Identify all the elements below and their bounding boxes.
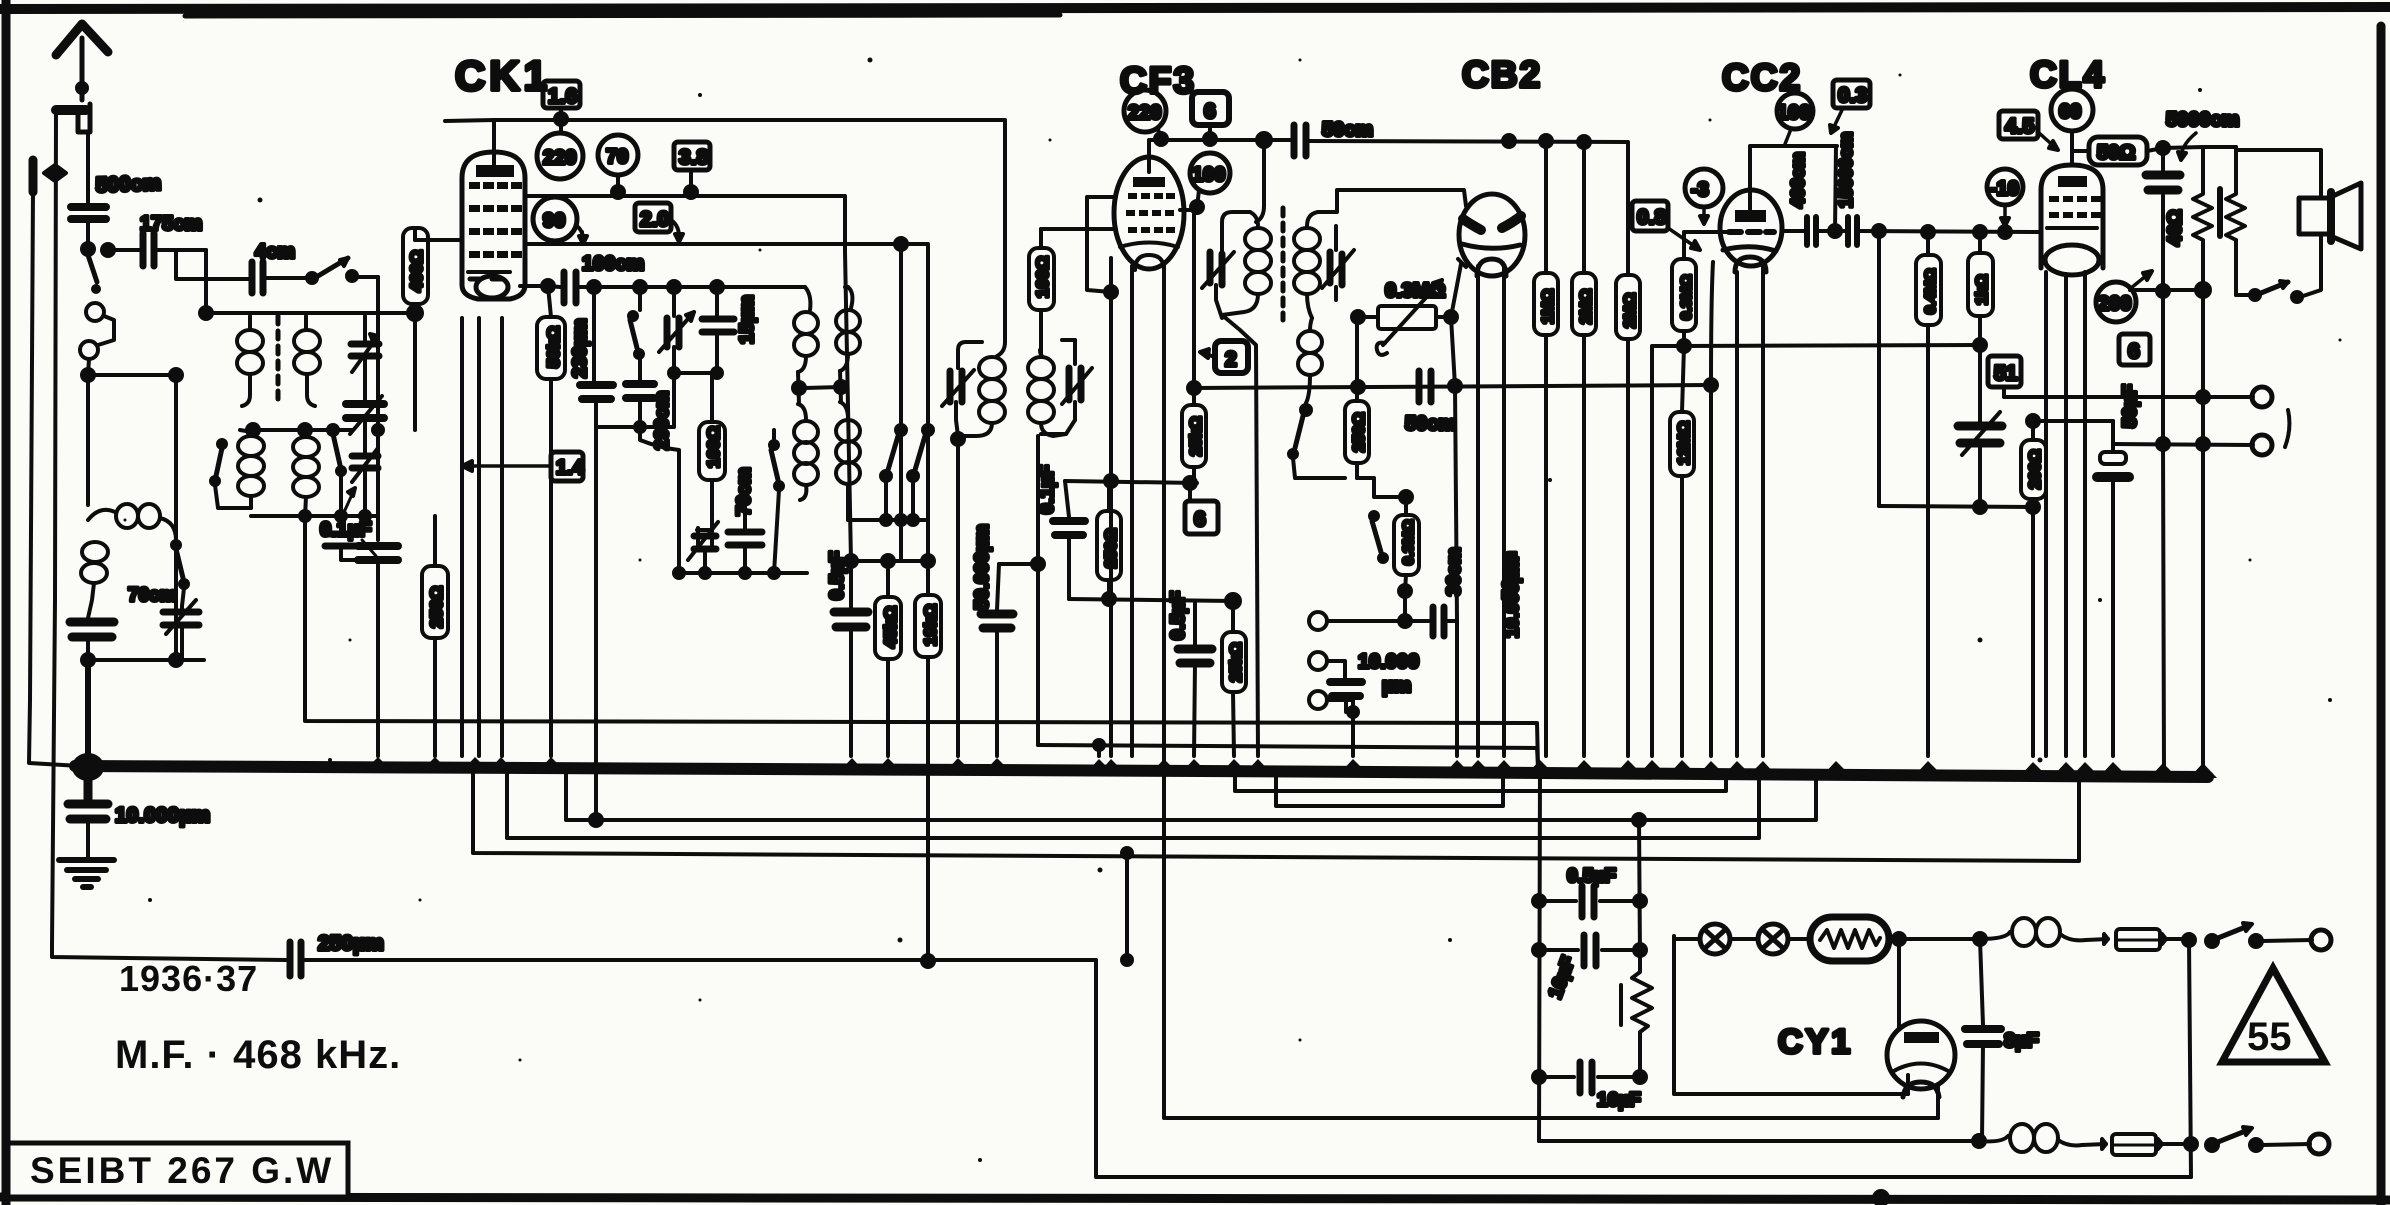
- node osc coil mid: [793, 372, 805, 404]
- svg-text:250Ω: 250Ω: [1103, 528, 1120, 568]
- trimmer capacitor IFT1 right: [1041, 340, 1092, 420]
- svg-text:12MΩ: 12MΩ: [1676, 421, 1693, 465]
- terminal jack 1: [1309, 612, 1411, 630]
- svg-text:6: 6: [1194, 508, 1206, 531]
- wire x1836 down: [1835, 146, 1836, 231]
- wire x1038 down elbow: [1036, 564, 1040, 745]
- svg-text:CK1: CK1: [455, 52, 551, 99]
- lamp 1: [1674, 924, 1730, 954]
- wire tank bottom row: [251, 511, 378, 521]
- speaker: [2299, 183, 2361, 249]
- core dashed IFT2: [1281, 208, 1286, 320]
- svg-text:250µm: 250µm: [318, 932, 384, 955]
- wire CF3 grid: [1041, 227, 1116, 231]
- wire x378 down: [376, 277, 380, 540]
- wire 175cm corner down: [204, 250, 208, 313]
- antenna lead elbow: [56, 104, 90, 132]
- wire left rail A: [29, 160, 80, 766]
- svg-text:1kΩ: 1kΩ: [1974, 274, 1991, 305]
- switch speaker: [2236, 240, 2302, 302]
- svg-text:175cm: 175cm: [140, 213, 202, 235]
- wire x1879 down: [1877, 231, 1881, 506]
- node junction x88 y375: [82, 369, 94, 381]
- wire y397 to terminal: [2034, 391, 2253, 403]
- wire secondary junction row: [247, 424, 352, 436]
- resistor 0.3M ohm AVC: [1394, 497, 1419, 591]
- wire IFT1 right rail: [1038, 420, 1075, 564]
- speaker loop bottom: [2303, 234, 2321, 296]
- wire switch bank verticals: [848, 238, 928, 525]
- node junction 176: [170, 369, 182, 381]
- trimmer capacitor sec bottom: [352, 440, 378, 516]
- wire padder cap link: [325, 516, 358, 560]
- wire return y791: [1235, 772, 1726, 791]
- box 0.8: [1632, 201, 1700, 250]
- node CY1 anode: [1889, 933, 1986, 1028]
- svg-text:CB2: CB2: [1462, 54, 1542, 95]
- resistor 45k ohm: [875, 561, 901, 756]
- capacitor 50cm AVC: [1419, 371, 1431, 402]
- node IFT1 left bottom: [952, 433, 964, 445]
- resistor 250 ohm CF3: [1097, 481, 1121, 599]
- wire AVC return y723: [305, 516, 1538, 766]
- terminal ring mains lower: [2309, 1134, 2329, 1154]
- wire CK1 plate top y120: [445, 120, 1005, 342]
- wire 46 ohm top: [2163, 147, 2203, 190]
- tube CB2: [1458, 194, 1525, 276]
- svg-text:400cm: 400cm: [1788, 152, 1808, 208]
- circle 70: [598, 135, 638, 198]
- svg-text:200Ω: 200Ω: [2027, 449, 2044, 489]
- svg-text:2: 2: [1225, 348, 1237, 371]
- svg-text:51: 51: [1994, 362, 2018, 385]
- svg-text:0.1µF: 0.1µF: [1037, 465, 1058, 514]
- wire x1357 pot up: [1355, 317, 1359, 385]
- fuse lower: [2082, 1134, 2184, 1155]
- circle 220: [537, 133, 583, 179]
- switch mains lower: [2206, 1127, 2310, 1151]
- circle 100 CC2: [1777, 93, 1813, 144]
- svg-text:1936·37: 1936·37: [119, 958, 258, 999]
- circle -10: [1987, 169, 2023, 226]
- svg-text:0.1µF: 0.1µF: [320, 519, 372, 541]
- capacitor 0.5uF CF3: [1178, 601, 1212, 756]
- svg-text:2MΩ: 2MΩ: [1578, 289, 1595, 324]
- wire primary top to plate line: [2203, 145, 2236, 149]
- wire y561 screen node: [845, 520, 934, 567]
- wire y745 long: [1038, 745, 1538, 766]
- svg-text:45kΩ: 45kΩ: [881, 606, 900, 648]
- resistor 19k ohm: [915, 595, 941, 967]
- svg-text:60: 60: [2059, 101, 2081, 123]
- tube CY1: [1887, 1021, 1955, 1097]
- svg-text:8µF: 8µF: [2004, 1030, 2039, 1052]
- svg-text:50.000µm: 50.000µm: [972, 524, 993, 610]
- resistor 250 ohm CK1 cathode: [422, 516, 448, 756]
- tube CL4: [2041, 165, 2103, 275]
- switch bank right pair: [881, 425, 933, 481]
- box 3.8: [674, 142, 710, 198]
- terminal ring 1: [2252, 387, 2272, 407]
- svg-text:220: 220: [543, 147, 576, 169]
- switch antenna selector: [88, 255, 99, 292]
- node pot right: [1445, 311, 1457, 323]
- node 5000cm top: [2157, 142, 2169, 154]
- wire x88 to bus: [85, 660, 91, 756]
- core dashed antenna transformer: [276, 316, 281, 404]
- capacitor 230cm chain: [580, 287, 613, 427]
- wire return y853: [473, 771, 2079, 861]
- svg-text:1.6: 1.6: [548, 85, 577, 108]
- wire x679 down: [640, 427, 679, 573]
- wire return y820: [566, 771, 1816, 826]
- node y421: [2027, 415, 2113, 427]
- node bottom frame junction: [1874, 1191, 1888, 1205]
- switch osc chain2: [629, 287, 643, 358]
- wire IFT2 left rail to bus: [1222, 315, 1258, 756]
- tube CC2: [1720, 190, 1782, 272]
- coil oscillator secondary: [836, 287, 860, 520]
- node row y573: [674, 568, 807, 578]
- svg-text:50Ω: 50Ω: [2097, 142, 2135, 164]
- wire bottom node row y660: [82, 654, 204, 666]
- svg-text:250Ω: 250Ω: [427, 586, 446, 628]
- wire return y838: [507, 771, 1759, 838]
- svg-text:15µm: 15µm: [737, 295, 758, 344]
- wire CC2 grid cap line y231: [1782, 217, 2040, 245]
- node bus big blob: [74, 755, 102, 779]
- node AVC switch top: [1357, 478, 1412, 503]
- box 4.5: [1999, 111, 2058, 150]
- resistor 1M ohm: [1534, 143, 1558, 756]
- svg-text:200: 200: [2098, 293, 2131, 315]
- coil oscillator CB2: [1298, 318, 1322, 403]
- svg-text:100: 100: [1192, 164, 1225, 186]
- capacitor 70cm osc: [728, 500, 762, 573]
- node antenna diamond junction: [44, 165, 66, 181]
- svg-text:100: 100: [1777, 102, 1810, 124]
- capacitor 0.5uF mains: [1539, 886, 1640, 917]
- svg-text:1MΩ: 1MΩ: [1540, 289, 1557, 324]
- svg-text:10.000: 10.000: [1358, 651, 1419, 673]
- svg-text:290cm: 290cm: [652, 391, 673, 450]
- node junction x378 y430: [373, 425, 383, 435]
- box 50 ohm: [2072, 137, 2163, 165]
- svg-text:CY1: CY1: [1778, 1023, 1853, 1061]
- IF transformer 1 frame left: [958, 342, 982, 368]
- trimmer capacitor IFT1 left: [942, 370, 974, 436]
- node dots y231: [1829, 225, 2011, 238]
- wire y313 primary top: [206, 311, 415, 315]
- capacitor 16uF first: [1539, 935, 1640, 966]
- coil antenna 70cm primary: [81, 504, 176, 618]
- terminal jack 3: [1309, 691, 1353, 712]
- wire y427 link: [596, 422, 645, 432]
- tube CL4 legs: [2046, 272, 2085, 756]
- box 0.3: [1830, 80, 1870, 133]
- capacitor 8uF: [1965, 939, 2001, 1141]
- capacitor 500cm: [71, 132, 106, 246]
- trimmer capacitor 70cm: [163, 600, 199, 660]
- circle 200: [2096, 271, 2152, 322]
- svg-text:100Ω: 100Ω: [704, 426, 723, 468]
- wire CK1 y203: [525, 196, 845, 252]
- capacitor 50cm top: [1294, 125, 1628, 156]
- svg-text:µm: µm: [1382, 675, 1411, 697]
- svg-text:0.5µF: 0.5µF: [1567, 866, 1616, 887]
- svg-text:25kΩ: 25kΩ: [1188, 416, 1205, 456]
- svg-text:0.3: 0.3: [1838, 84, 1867, 107]
- node x1099: [1094, 740, 1104, 750]
- switch band right: [333, 434, 345, 516]
- box 1.4: [462, 452, 585, 481]
- resistor 100 ohm osc: [699, 373, 725, 530]
- node junction 500cm/175cm: [82, 243, 114, 256]
- speaker loop top: [2236, 150, 2321, 198]
- svg-text:55: 55: [2247, 1015, 2292, 1059]
- svg-text:0.8: 0.8: [1637, 206, 1667, 229]
- svg-text:6: 6: [2128, 340, 2140, 363]
- resistor mains zigzag: [1621, 958, 1652, 1077]
- node switch feed upper: [2183, 934, 2195, 1177]
- wire left rail B (antenna down): [52, 112, 56, 945]
- svg-text:400Ω: 400Ω: [407, 250, 426, 292]
- wire CY1 loop: [1674, 936, 1908, 1094]
- svg-text:250Ω: 250Ω: [1351, 412, 1368, 452]
- circle 100 CF3: [1190, 153, 1230, 213]
- label 10000 um: [1358, 651, 1419, 697]
- coil antenna coupling lower-left: [238, 430, 264, 508]
- capacitor 0.1uF: [358, 546, 398, 756]
- coil IFT2 primary: [1222, 212, 1271, 315]
- resistor 12M ohm: [1670, 346, 1694, 756]
- resistor 25k ohm lower: [1222, 601, 1246, 756]
- tube CF3: [1114, 157, 1184, 270]
- node switch feed lower: [2185, 1138, 2197, 1150]
- capacitor 100cm: [548, 272, 805, 303]
- capacitor antenna bottom: [70, 622, 114, 660]
- label 0.1uF: [320, 488, 376, 556]
- node y591: [1399, 585, 1411, 621]
- svg-text:4cm: 4cm: [255, 241, 295, 263]
- svg-text:500cm: 500cm: [95, 172, 161, 197]
- tube CK1: [462, 152, 525, 299]
- tube CK1 legs: [462, 318, 502, 756]
- switch osc coil tap: [770, 430, 783, 573]
- bus junction bumps: [363, 757, 2217, 778]
- wire 4cm line left: [248, 277, 252, 281]
- svg-text:220: 220: [1128, 102, 1161, 124]
- switch 70cm: [172, 541, 188, 606]
- terminal ring 2: [2252, 435, 2272, 455]
- trimmer capacitor IFT2 right: [1322, 226, 1354, 300]
- box 6 CF3: [1192, 92, 1229, 145]
- node osc CB2: [1301, 405, 1311, 415]
- capacitor 10000cm: [1330, 682, 1362, 756]
- capacitor chain2: [626, 358, 654, 427]
- potentiometer 0.3M ohm: [1358, 280, 1451, 355]
- svg-text:3.8: 3.8: [679, 146, 709, 169]
- resistor 1k ohm: [1968, 232, 1993, 345]
- wire antenna coil feed: [88, 359, 89, 505]
- svg-text:SEIBT 267 G.W: SEIBT 267 G.W: [30, 1150, 334, 1191]
- wire osc top right: [845, 285, 848, 289]
- title box SEIBT 267 G.W: [8, 1143, 348, 1197]
- wire x845 screen feed down: [845, 252, 851, 561]
- svg-text:1.4: 1.4: [556, 457, 585, 479]
- coil antenna primary upper: [237, 316, 263, 406]
- svg-text:2MΩ: 2MΩ: [1622, 293, 1639, 328]
- wire CY1 cathode leads: [1908, 1086, 1938, 1118]
- resistor 50k ohm: [537, 286, 565, 756]
- svg-text:0.3MΩ: 0.3MΩ: [1385, 280, 1446, 302]
- capacitor 5000cm: [2146, 148, 2180, 292]
- wire CK1 y248: [525, 244, 928, 595]
- svg-text:0.4MΩ: 0.4MΩ: [1922, 269, 1939, 314]
- wire y506: [1879, 501, 2039, 513]
- svg-text:4.5: 4.5: [2005, 115, 2035, 138]
- capacitor 50uF electrolytic: [2097, 421, 2129, 756]
- capacitor 50000cm: [981, 564, 1013, 756]
- node y345: [1974, 339, 1986, 351]
- capacitor 0.1uF CF3: [1053, 481, 1085, 599]
- wire y599: [1069, 593, 1240, 608]
- svg-text:50µF: 50µF: [2120, 384, 2141, 428]
- wire x596 link: [594, 427, 598, 820]
- svg-text:50kΩ: 50kΩ: [544, 326, 563, 368]
- box 51: [1988, 356, 2034, 397]
- IF transformer 2 frame: [1222, 212, 1250, 254]
- resistor 2M ohm second: [1616, 143, 1640, 756]
- wire return y806: [1276, 772, 1503, 806]
- wire CF3 anode side: [1087, 197, 1117, 298]
- coil IFT1 primary: [958, 342, 1005, 436]
- resistor 400 ohm grid stopper: [403, 228, 428, 430]
- coil antenna secondary upper: [294, 316, 320, 406]
- wire x2203 down: [2201, 290, 2205, 772]
- trimmer capacitor IFT2 left: [1202, 252, 1234, 318]
- wire heater line y1118: [1166, 1086, 1938, 1118]
- svg-text:70: 70: [606, 146, 628, 168]
- svg-text:5000cm: 5000cm: [2166, 109, 2239, 131]
- node IFT1 right top: [1041, 336, 1075, 345]
- svg-text:70cm: 70cm: [128, 585, 177, 606]
- coil IFT1 secondary: [1028, 350, 1066, 436]
- svg-text:90: 90: [543, 210, 565, 232]
- tube CB2 legs: [1478, 266, 1504, 756]
- capacitor 0.5uF CK1: [834, 561, 868, 756]
- circle 60: [2051, 89, 2093, 165]
- coil IFT2 secondary: [1294, 212, 1320, 318]
- box 2.0: [635, 203, 683, 242]
- terminal ring mains upper: [2311, 930, 2331, 950]
- switch band left: [211, 440, 251, 508]
- wire y346 long to 1k: [1684, 345, 1980, 346]
- capacitor 4cm: [252, 262, 306, 293]
- wire 250cm line: [52, 942, 2191, 1177]
- coil oscillator primary: [794, 287, 818, 500]
- svg-text:100Ω: 100Ω: [1033, 256, 1052, 298]
- variable capacitor mid: [346, 376, 384, 440]
- svg-text:100cm: 100cm: [582, 253, 644, 275]
- capacitor 16uF second: [1539, 1062, 1646, 1093]
- triangle mark 55: [2222, 968, 2325, 1062]
- coil mains filter upper: [1980, 918, 2086, 946]
- wire x2163 down: [2163, 292, 2164, 770]
- capacitor 10000cm to ground: [68, 767, 108, 858]
- svg-text:16µF: 16µF: [1597, 1090, 1641, 1111]
- wire lower mains line y1141: [1539, 1135, 1985, 1147]
- resistor 100 ohm CF3 grid: [1029, 229, 1054, 336]
- box 6 CL4: [2119, 334, 2150, 365]
- wire y250 to 4cm: [176, 252, 250, 279]
- wire x1099 hook to bus: [1097, 745, 1101, 756]
- wire x1451 down: [1451, 264, 1461, 756]
- svg-text:-10: -10: [1990, 178, 2019, 200]
- svg-text:230µm: 230µm: [570, 318, 591, 378]
- svg-text:M.F. · 468 kHz.: M.F. · 468 kHz.: [115, 1033, 401, 1077]
- trimmer capacitor sec top: [351, 316, 379, 376]
- node osc sec mid: [805, 371, 847, 402]
- node x2163 y444: [2157, 438, 2169, 450]
- svg-text:0.3MΩ: 0.3MΩ: [1400, 520, 1417, 565]
- wire y444 to terminal2: [2113, 438, 2253, 450]
- svg-text:-3: -3: [1691, 179, 1709, 201]
- svg-text:0.5µF: 0.5µF: [1168, 591, 1189, 640]
- ground bus main: [75, 766, 2208, 777]
- coil antenna secondary lower: [293, 430, 319, 516]
- switch AVC: [1370, 512, 1387, 562]
- tube CF3 legs: [1111, 258, 1164, 1118]
- contact circles with link: [80, 303, 114, 359]
- svg-text:10.000µm: 10.000µm: [115, 804, 210, 827]
- wire CY1 rail right: [1634, 820, 1646, 958]
- lamp 2: [1730, 924, 1810, 954]
- resistor 0.3M ohm CC2: [1672, 232, 1727, 346]
- wire CF3 top y143: [1149, 140, 1290, 172]
- svg-text:0.3MΩ: 0.3MΩ: [1678, 275, 1695, 320]
- svg-text:6: 6: [1204, 100, 1216, 123]
- node pot left: [1352, 311, 1364, 323]
- svg-text:15000cm: 15000cm: [1836, 132, 1856, 208]
- trimmer capacitor osc padder: [688, 522, 718, 573]
- svg-text:46Ω: 46Ω: [2165, 210, 2186, 246]
- circle 220 CF3: [1124, 90, 1167, 145]
- antenna: [56, 24, 108, 100]
- svg-text:50cm: 50cm: [1405, 413, 1456, 435]
- capacitor 175cm: [108, 233, 206, 266]
- switch osc CB2: [1289, 416, 1345, 478]
- wire y375 to secondary: [88, 375, 176, 660]
- svg-text:30cm: 30cm: [1444, 547, 1465, 596]
- wire CB2 grid from IFT2: [1318, 190, 1466, 212]
- switch 4cm: [307, 258, 378, 283]
- svg-text:2.0: 2.0: [640, 208, 669, 231]
- output transformer primary zigzag: [2226, 147, 2245, 295]
- wire CY1 rail left: [1533, 766, 1545, 1141]
- node x1127: [1122, 848, 1132, 965]
- tube CC2 legs: [1711, 262, 1763, 756]
- node dots y287: [588, 281, 723, 293]
- barretter: [1810, 917, 1889, 961]
- wire CC2 anode top: [1750, 146, 1837, 210]
- wire CK1 y287: [520, 280, 554, 292]
- svg-text:25kΩ: 25kΩ: [1228, 642, 1245, 682]
- switch mains upper: [2206, 923, 2312, 947]
- terminal jack 2: [1309, 652, 1345, 678]
- resistor 25k ohm CF3 screen: [1180, 210, 1206, 483]
- capacitor 30cm: [1405, 607, 1457, 636]
